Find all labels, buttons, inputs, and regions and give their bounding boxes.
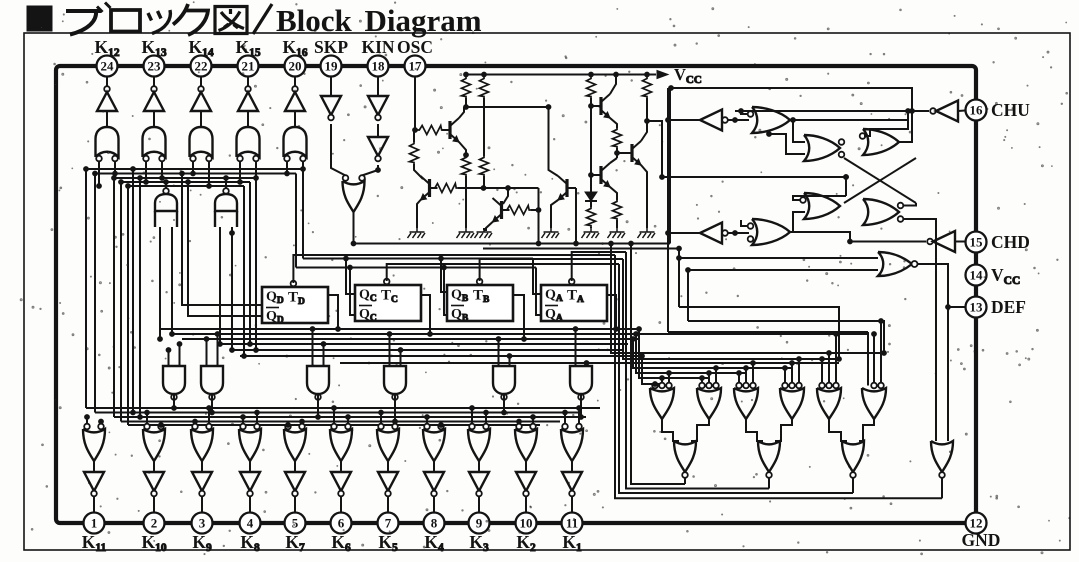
G1 input elbows [741,111,748,114]
M5 input stubs [498,339,500,366]
resistor R13 [587,207,596,227]
wire pin17 OSC down [414,77,416,131]
NOR K13 input stubs [145,161,147,182]
inverter B3 [192,472,212,491]
NOR gate K13 column [143,127,166,157]
B3 output to inverter [201,461,203,472]
B3 input stubs [194,422,196,424]
resistor R4 [643,77,652,98]
B8 output to inverter [433,461,435,472]
svg-text:14: 14 [970,268,984,283]
decode pair wires 3 [829,419,847,441]
wire L2 to G6 [728,232,749,234]
transistor Q4 [565,179,568,197]
bottom NOR gate B11 [562,424,568,430]
middle NAND gate M4 [384,366,406,394]
svg-text:K16: K16 [282,37,307,59]
TD clock bubble [291,281,297,287]
pin 11 K1 [562,513,583,534]
ground G5 [582,228,600,238]
resistor R12 [613,200,622,220]
svg-text:GND: GND [962,530,1001,550]
bundle return 4 [615,255,942,498]
svg-text:19: 19 [325,59,339,74]
NOR gate K14 column [190,127,213,157]
inverter KIN 2 [368,137,388,156]
ground G6 [608,228,626,238]
svg-text:K1: K1 [562,532,582,554]
Q7 collector wire [641,121,647,141]
svg-text:DEF: DEF [991,297,1026,317]
FFD input wires [182,174,262,306]
Q4 emitter wire [551,200,558,228]
bundle feed 4 [636,334,746,373]
cluster vertical VB [678,249,680,308]
middle NAND gate M2 [201,366,223,394]
inverter K14 column [198,86,204,92]
wire inverter to NOR K15 [247,111,249,127]
D2 input stubs [701,378,703,383]
TG1 input wires [159,227,161,339]
pin 5 K7 [285,513,306,534]
svg-text:1: 1 [91,516,98,531]
B9 input stubs [471,408,473,424]
B9 output to inverter [478,461,480,472]
svg-text:VCC: VCC [991,265,1020,287]
Q7 emitter wire [641,165,647,228]
cluster vertical VA [667,88,669,332]
svg-text:20: 20 [289,59,302,74]
Q6 base vertical [590,106,592,175]
decode gate D6 left input from latch line [867,332,869,386]
pin 9 K3 [469,513,490,534]
pin 17 OSC [405,56,426,77]
bundle return 3 [619,264,853,493]
svg-text:7: 7 [385,516,392,531]
decode NOR gate D6 [871,383,877,389]
svg-text:12: 12 [970,516,983,531]
svg-text:K11: K11 [82,532,107,554]
FF feed line A [303,258,533,260]
decode NOR gate D3 [736,383,742,389]
FFD output wire [328,295,338,329]
middle NAND gate M6 [570,366,592,394]
title block marker square [27,6,52,31]
B6 input stubs [333,408,335,424]
FFB input wires [441,259,447,293]
wire pin20 to inverter [294,77,296,90]
NOR K15 input stubs [239,161,241,182]
VCC arrow [657,71,668,79]
G6 input elbows [741,220,748,226]
pin 16 CHU [966,100,987,121]
title katakana KU [173,4,208,35]
left vertical bus drop 1 [85,169,87,408]
NOR gate G6 [752,219,790,245]
Q7 base tap [617,152,624,154]
pin 24 K12 [97,56,118,77]
latch gate LD [863,199,899,225]
resistor R2 [480,77,489,98]
bottom NOR gate B10 [516,424,522,430]
M2 input stubs [206,339,208,366]
B7 output to inverter [387,461,389,472]
inverter B6 [331,472,351,491]
inverter B2 [144,472,164,491]
bottom NOR gate B9 [469,424,475,430]
Q2 emitter wire [417,200,421,228]
Q6 collector wire [610,158,617,163]
pin 15 CHD [966,232,987,253]
NOR gate K15 column [237,127,260,157]
transistor Q7 [630,144,633,162]
pin 21 K15 [238,56,259,77]
bundle feed 3 [633,339,792,368]
M2 output wire [211,394,213,413]
wire inverter to NOR K12 [106,111,108,127]
inverter K16 column [292,86,298,92]
M1 output wire [173,394,175,408]
transistor Q3 [500,201,503,219]
wire Q2 bias [458,187,539,189]
resistor R6 [410,142,419,164]
svg-text:K4: K4 [424,532,444,554]
left vertical bus drop 3 [113,178,115,417]
resistor R11 [613,128,622,148]
FFC output wire [421,295,430,334]
resistor R9 tank [480,156,489,176]
bundle return 1 [631,244,685,485]
svg-text:6: 6 [338,516,345,531]
IC boundary thick border [56,66,976,523]
pin 13 DEF [966,297,987,318]
flip-flop TD [262,287,328,323]
wire inverter to NOR K16 [294,111,296,127]
wire pin21 to inverter [247,77,249,90]
FFC input wires [346,259,355,295]
flip-flop TC [355,285,421,321]
M6 output wire [580,394,582,417]
wire R11 to Q6 node [616,148,618,158]
B4 output to inverter [249,461,251,472]
pin 6 K6 [331,513,352,534]
wire SKP inverter to NOR [331,124,346,176]
NOR gate K12 column [96,127,119,157]
inverter B8 [424,472,444,491]
svg-text:9: 9 [476,516,483,531]
far right NOR gate [931,441,953,472]
osc right edge [669,88,671,244]
pin 19 SKP [321,56,342,77]
svg-text:K8: K8 [240,532,260,554]
LD output wire [903,219,936,441]
flip-flop TB [447,285,513,321]
transistor Q2 [428,179,431,197]
pin 23 K13 [144,56,165,77]
inverter K13 column [151,86,157,92]
svg-text:K10: K10 [141,532,166,554]
middle NAND gate M5 [493,366,515,394]
svg-text:KIN: KIN [361,37,394,57]
decode NOR gate D1 [652,383,658,389]
svg-text:3: 3 [199,516,206,531]
B2 input stubs [146,413,148,424]
NOR gate G8 DEF [878,252,912,276]
latch mid node wire [845,177,847,196]
N3 output wire [852,478,854,494]
latch cross wire 1 [844,158,916,203]
wire inverter to NOR K14 [200,111,202,127]
Q3 base resistor R10 horizontal [505,206,531,215]
wire inverter15 to pin [955,241,965,243]
inverter K15 column [245,86,251,92]
title kanji ZU [215,7,247,34]
osc bottom rail 2 [483,248,679,250]
pin 20 K16 [285,56,306,77]
TA clock wire [572,252,626,281]
merge NOR gate N2 [758,441,780,472]
FFA input wires [533,259,541,295]
flip-flop TA [541,285,607,321]
D6 input stubs [873,334,875,383]
wire pin13 branch down [947,307,949,441]
bottom NOR gate B4 [240,424,246,430]
FFB output wire [513,295,524,339]
M3 output wire [317,394,319,417]
pin 12 GND [966,513,987,534]
decode NOR gate D5 [819,383,825,389]
inverter B4 [240,472,260,491]
svg-text:17: 17 [409,59,423,74]
D4 input stubs [784,368,786,383]
wire inverter to pin 5 [294,496,296,512]
inverter K12 column [104,86,110,92]
TB clock wire [480,259,623,281]
NOR K14 input stubs [192,161,194,174]
TA clock bubble [569,279,575,285]
svg-text:K6: K6 [331,532,351,554]
tall NAND gate TG2 [223,188,229,194]
G1 output wire [790,111,908,120]
svg-text:K9: K9 [192,532,212,554]
wire inverter16 to pin [958,110,965,113]
wire inverter to pin 11 [571,496,573,512]
transistor Q6 [599,166,602,184]
B1 output to inverter [93,461,95,472]
LB output wire [898,112,912,142]
bus elbow right 1 [867,334,869,386]
inverter B5 [285,472,305,491]
merge NOR gate N1 [674,441,696,472]
B1 input stubs [86,417,88,424]
svg-text:SKP: SKP [314,37,348,57]
N1 output wire [684,478,686,485]
bottom NOR gate B7 [378,424,384,430]
wire R6 to Q2 collector [414,164,423,179]
transistor Q5 [599,97,602,115]
svg-text:K12: K12 [94,37,119,59]
decode NOR gate D2 [699,383,705,389]
latch gate LB [863,129,899,155]
NOR K12 input stubs [98,161,100,186]
B4 input stubs [242,417,244,424]
wire inverter to pin 9 [478,496,480,512]
latch left line 3 [668,331,868,333]
svg-text:K14: K14 [188,37,213,59]
pin 18 KIN [368,56,389,77]
inverter B7 [378,472,398,491]
LC input wires [793,196,846,200]
key bus drop 3 [255,178,257,350]
osc bottom rail [354,243,671,245]
bundle feed 1 [611,244,884,354]
Q4 base vertical [575,187,576,189]
svg-text:K13: K13 [141,37,166,59]
FFA output wire [607,295,616,329]
bundle feed 2 [623,259,841,359]
key input bus lines [86,168,303,170]
LA input wires [793,120,805,142]
svg-text:16: 16 [970,103,984,118]
wire strobe NOR output to clock rail [353,212,355,244]
title katakana BU [66,3,111,35]
svg-text:K7: K7 [285,532,305,554]
wire inverter to pin 3 [201,496,203,512]
B5 output to inverter [294,461,296,472]
svg-text:K3: K3 [469,532,489,554]
wire inverter to pin 7 [387,496,389,512]
inverter B1 [84,472,104,491]
wire inverter to pin 6 [340,496,342,512]
wire inverter to pin 2 [153,496,155,512]
svg-text:10: 10 [520,516,533,531]
wire L1 output left [668,119,700,121]
wire pin18 KIN [377,77,379,97]
ground G7 [638,228,656,238]
pin 1 K11 [84,513,105,534]
svg-text:21: 21 [242,59,255,74]
Q6 emitter wire [610,187,617,200]
Q5 base wire [591,98,593,106]
svg-text:CHD: CHD [991,232,1030,252]
left vertical bus drop 6 [132,169,134,413]
wire osc to latch [662,176,846,178]
M3 input stubs [312,329,314,366]
bottom NOR gate B8 [424,424,430,430]
Q1 collector wire [459,107,464,118]
G8 output to pin13 [918,264,966,307]
title katakana small TSU [148,10,170,34]
diode D1 [590,175,592,192]
wire KIN to NOR [362,165,378,176]
B10 output to inverter [525,461,527,472]
scan bus lines [86,407,600,409]
M4 input stubs [389,334,391,366]
osc output wire [647,121,662,177]
svg-text:K15: K15 [235,37,260,59]
B11 input stubs [564,413,566,424]
M6 input stubs [575,329,577,366]
svg-text:OSC: OSC [397,37,433,57]
svg-text:18: 18 [372,59,386,74]
wire inverter to pin 10 [525,496,527,512]
TG1 output wire [165,182,167,189]
M4 output wire [394,394,396,422]
wire inverter to NOR K13 [153,111,155,127]
wire L2 output [668,232,700,234]
cluster vertical VC [687,270,689,321]
B2 output to inverter [153,461,155,472]
inverter B11 [562,472,582,491]
TC clock wire [387,264,619,281]
latch cross wire 2 [844,158,916,203]
B11 output to inverter [571,461,573,472]
resistor R1 [462,77,471,98]
wire pin24 to inverter [106,77,108,90]
title slash [253,4,272,34]
pin 8 K4 [424,513,445,534]
B7 input stubs [380,413,382,424]
B5 input stubs [287,424,289,426]
svg-text:K5: K5 [378,532,398,554]
resistor R5 horizontal [418,126,444,135]
bottom NOR gate B6 [331,424,337,430]
wire pin19 SKP [330,77,332,97]
resistor R8 tank [462,156,471,176]
Q5 collector wire [610,75,616,95]
ground G1 [408,228,426,238]
inverter B10 [516,472,536,491]
svg-text:13: 13 [970,300,984,315]
left vertical bus drop 7 [139,178,141,417]
NOR gate key strobe [343,175,349,181]
D3 input stubs [738,373,740,383]
B6 output to inverter [340,461,342,472]
transistor Q1 [448,121,451,139]
latch left line 2 [688,321,884,353]
wire pin22 to inverter [200,77,202,90]
G6 output wire [790,232,926,242]
bottom NOR gate B3 [192,424,198,430]
latch left line 1 [679,307,839,359]
TD clock wire [293,255,615,283]
left vertical bus drop 2 [94,174,96,413]
middle NAND gate M1 [163,366,185,394]
TC clock bubble [384,279,390,285]
latch gate LA [804,135,840,161]
pin 3 K9 [192,513,213,534]
middle NAND gate M3 [307,366,329,394]
bottom NOR gate B5 [285,424,291,430]
osc node wire [465,98,467,107]
latch top link wire [671,88,912,111]
inverter to pin15 [927,239,933,245]
B8 input stubs [426,417,428,424]
pin 22 K14 [191,56,212,77]
resistor R3 [587,77,596,98]
wire pin23 to inverter [153,77,155,90]
svg-text:5: 5 [292,516,299,531]
D1 input stubs [654,383,656,384]
svg-text:VCC: VCC [674,65,702,86]
ground G4 [542,228,560,238]
TG2 output wire [225,178,227,189]
latch gate LC [804,193,840,219]
key bus drop 4 [249,182,251,344]
wire inverter to pin 1 [93,496,95,512]
TG2 input wires [219,227,221,344]
wire inverter to pin 4 [249,496,251,512]
